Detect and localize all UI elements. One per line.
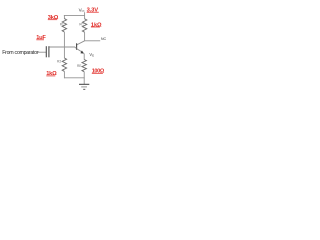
wire Vcc stem	[84, 12, 86, 15]
wire top rail	[64, 14, 85, 16]
ground bar 1	[79, 83, 89, 85]
resistor RC 1k zigzag	[82, 19, 86, 32]
transistor Q1 emitter lead	[77, 49, 83, 53]
ground bar 3	[83, 88, 85, 90]
value label 1k ohm top right (red link)	[91, 22, 102, 28]
value label 100 ohm (red link)	[92, 68, 105, 74]
value label 3.3V (red link)	[87, 7, 99, 13]
svg-text:E: E	[92, 54, 94, 58]
node Vcc label	[79, 7, 85, 12]
wire bottom rail	[64, 77, 85, 79]
value label 1uF (red link)	[36, 35, 46, 41]
wire collector column	[84, 32, 86, 41]
capacitor C1 plates	[45, 46, 47, 57]
circuit schematic: one-transistor level shifter	[0, 0, 120, 93]
svg-text:RC: RC	[79, 23, 84, 27]
ground bar 2	[81, 86, 87, 88]
transistor Q1 base bar	[76, 43, 78, 50]
svg-text:R2: R2	[57, 60, 61, 64]
svg-text:R1: R1	[60, 23, 64, 27]
svg-text:1kΩ: 1kΩ	[91, 22, 102, 28]
svg-text:cc: cc	[82, 9, 86, 13]
value label 1k ohm bottom left (red link)	[46, 71, 57, 77]
resistor R2 1k zigzag	[62, 58, 66, 71]
svg-text:1kΩ: 1kΩ	[46, 71, 57, 77]
value label 3k ohm (red link)	[48, 15, 59, 21]
wire NC stub	[85, 40, 101, 42]
resistor R1 3k zigzag	[62, 19, 66, 32]
transistor Q1 emitter arrowhead	[80, 51, 84, 54]
capacitor C1 input wire	[38, 51, 46, 53]
resistor RE 100 ohm zigzag	[82, 60, 86, 72]
svg-text:NC: NC	[101, 37, 107, 41]
wire RE to bottom rail	[83, 72, 85, 79]
wire capacitor to base (with jog)	[49, 46, 75, 48]
wire left column upper	[63, 15, 65, 19]
ground stem	[83, 78, 85, 84]
wire emitter column	[83, 53, 85, 59]
transistor Q1 collector lead	[77, 41, 85, 45]
wire left column middle	[63, 32, 65, 58]
wire right column upper	[84, 15, 86, 19]
svg-text:RE: RE	[77, 64, 81, 68]
wire left column lower	[63, 71, 65, 78]
svg-text:From comparator: From comparator	[2, 50, 39, 56]
label VE	[89, 52, 94, 57]
